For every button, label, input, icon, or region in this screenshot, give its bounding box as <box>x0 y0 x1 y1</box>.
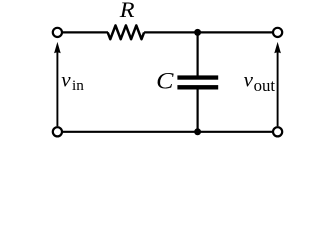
wire capacitor bottom lead <box>197 89 199 132</box>
svg-text:v: v <box>61 67 71 91</box>
terminal top-left <box>53 28 62 37</box>
wire vout arrow shaft <box>277 51 279 126</box>
terminal bottom-right <box>273 127 282 136</box>
wire bottom rail <box>63 131 273 133</box>
wire top-right (resistor to output terminal) <box>144 31 272 33</box>
terminal bottom-left <box>53 127 62 136</box>
wire top-left (input terminal to resistor) <box>63 31 108 33</box>
svg-text:v: v <box>244 67 254 91</box>
vout arrowhead <box>274 42 281 53</box>
svg-text:in: in <box>72 77 84 94</box>
svg-text:C: C <box>156 69 174 95</box>
wire vin arrow shaft <box>56 51 58 126</box>
terminal top-right <box>273 28 282 37</box>
wire capacitor top lead <box>197 32 199 76</box>
svg-text:out: out <box>254 76 276 95</box>
capacitor C1 bottom plate <box>177 85 218 89</box>
capacitor C1 top plate <box>177 75 218 79</box>
vin arrowhead <box>54 42 61 53</box>
node bottom junction <box>194 128 201 135</box>
resistor R1 body <box>108 25 144 39</box>
node top junction <box>194 29 201 36</box>
svg-text:R: R <box>119 0 136 22</box>
